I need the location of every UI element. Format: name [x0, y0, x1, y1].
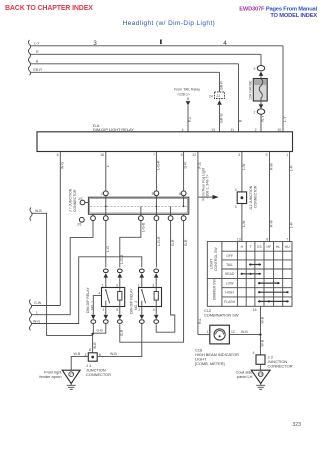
svg-text:5: 5: [116, 308, 118, 312]
wire J7-K down to relay1 pin5 (lower jog): [120, 221, 184, 343]
connector arrow below 2J: [217, 100, 222, 104]
svg-text:R-L: R-L: [198, 318, 202, 324]
svg-text:W-B: W-B: [110, 352, 117, 356]
contact bar FLASH row: [258, 300, 289, 302]
svg-text:2: 2: [138, 308, 140, 312]
section divider tick: [160, 40, 162, 45]
svg-text:3: 3: [235, 188, 237, 192]
svg-text:HL: HL: [276, 245, 280, 249]
svg-text:DIM-DIP RELAY: DIM-DIP RELAY: [86, 287, 90, 313]
svg-text:DIM-DIP LIGHT RELAY: DIM-DIP LIGHT RELAY: [93, 127, 134, 132]
svg-text:EWD307F Pages From Manual: EWD307F Pages From Manual: [239, 6, 317, 12]
svg-text:16: 16: [100, 153, 104, 157]
wire down to J1: [92, 334, 94, 353]
wire bus GR-R: [30, 71, 220, 73]
svg-text:4: 4: [153, 308, 155, 312]
svg-text:8: 8: [266, 237, 268, 241]
svg-text:W-B: W-B: [241, 330, 248, 334]
contact bar LOW row: [258, 282, 280, 284]
svg-text:1: 1: [286, 153, 288, 157]
svg-text:L-R: L-R: [290, 222, 294, 228]
fuse 10A GAUGE: [260, 54, 262, 65]
svg-text:TAIL: TAIL: [226, 263, 233, 267]
svg-text:CONTROL SW: CONTROL SW: [214, 247, 218, 271]
svg-text:E3: E3: [257, 245, 261, 249]
ground triangle 18: [251, 370, 270, 383]
svg-text:P-L: P-L: [188, 117, 192, 123]
svg-text:2: 2: [254, 110, 256, 114]
wire relay pin12 down (rear fog / indicator feed): [197, 152, 199, 335]
svg-text:L-R: L-R: [290, 165, 294, 171]
fuse arrow up: [259, 72, 264, 76]
J7 top circle C: [181, 191, 186, 196]
combination switch C12 table: [207, 242, 292, 307]
relay D-6 DIM-DIP LIGHT RELAY (main box): [37, 132, 293, 152]
wire relay pin7 to J7 top B: [155, 152, 157, 191]
svg-text:FLASH: FLASH: [224, 300, 235, 304]
relay2 switch contact: [141, 289, 143, 291]
svg-text:W-B: W-B: [261, 339, 265, 346]
connector 2J (dashed box) on GR-R wire: [219, 72, 221, 92]
svg-text:R-W: R-W: [270, 162, 274, 170]
svg-text:8: 8: [89, 348, 91, 352]
svg-text:J 7 JUNCTION: J 7 JUNCTION: [69, 188, 73, 212]
wire J7-G2 down to relay1 pin1: [105, 221, 107, 268]
fuse arrow down: [260, 101, 262, 105]
svg-text:BACK TO CHAPTER INDEX: BACK TO CHAPTER INDEX: [5, 5, 93, 12]
table horizontals: [207, 251, 292, 297]
svg-text:3: 3: [238, 153, 240, 157]
svg-text:W-G: W-G: [60, 162, 64, 169]
svg-text:[COMB. METER]: [COMB. METER]: [195, 361, 225, 366]
branch arrow to rear fog light: [198, 196, 213, 198]
svg-text:panel LH: panel LH: [237, 374, 253, 379]
table verticals: [222, 242, 283, 307]
svg-text:GR-R: GR-R: [220, 81, 224, 90]
svg-text:W-B: W-B: [93, 342, 97, 349]
wire B vertical to relay pin 11: [238, 64, 240, 132]
svg-text:12: 12: [192, 153, 196, 157]
wire bus L-Y: [30, 45, 283, 47]
svg-text:1: 1: [207, 330, 209, 334]
svg-text:CONNECTOR: CONNECTOR: [254, 185, 258, 208]
svg-text:4: 4: [253, 351, 255, 355]
svg-text:1: 1: [138, 283, 140, 287]
svg-text:CONNECTOR: CONNECTOR: [73, 189, 77, 212]
svg-text:J/7: J/7: [78, 197, 83, 201]
svg-text:<308-1, 348-7>: <308-1, 348-7>: [206, 175, 210, 199]
svg-text:7: 7: [153, 153, 155, 157]
wire J7-I down to relay2 pin3: [155, 221, 157, 268]
svg-text:W-B: W-B: [35, 209, 42, 213]
relay1 box: [102, 288, 125, 307]
junction connector J7 (long box): [88, 197, 188, 214]
svg-text:LIGHT: LIGHT: [210, 258, 214, 269]
svg-text:<228-1>: <228-1>: [177, 92, 190, 96]
svg-text:COMBINATION SW: COMBINATION SW: [204, 312, 239, 317]
svg-text:L-G-R: L-G-R: [157, 160, 161, 170]
relay1 top connector 1 (ellipse+arrow): [103, 269, 108, 273]
svg-text:11: 11: [230, 128, 234, 132]
svg-text:HIGH: HIGH: [225, 291, 234, 295]
svg-text:8: 8: [57, 153, 59, 157]
svg-text:G-R: G-R: [184, 239, 188, 246]
junction connector J12: [237, 192, 246, 204]
ground symbol (body ground): [67, 384, 76, 390]
svg-text:Headlight (w/ Dim-Dip Light): Headlight (w/ Dim-Dip Light): [123, 20, 216, 27]
arrow from TAIL relay: [186, 101, 191, 105]
svg-text:12: 12: [231, 330, 235, 334]
relay1 switch contact: [105, 289, 107, 291]
wire relay pin9 to combination switch: [269, 152, 271, 242]
contact bar TAIL row: [249, 264, 261, 266]
svg-text:2: 2: [102, 308, 104, 312]
wire C16 pin12 to ground column: [229, 334, 260, 336]
wire J7-H jog to relay1 pin3: [120, 221, 141, 268]
svg-text:J/1: J/1: [77, 223, 82, 227]
page continuation squiggle (top-left): [28, 40, 30, 75]
svg-text:HEAD: HEAD: [225, 272, 235, 276]
svg-text:J12 JUNCTION: J12 JUNCTION: [249, 185, 253, 210]
svg-text:G-R: G-R: [171, 239, 175, 246]
svg-text:W-B: W-B: [74, 352, 81, 356]
svg-text:R-Y: R-Y: [261, 115, 265, 122]
svg-text:DIM-DIP RELAY: DIM-DIP RELAY: [129, 288, 133, 314]
svg-text:1: 1: [102, 283, 104, 287]
J7 bottom circle G2: [103, 216, 108, 221]
fuse body: [253, 79, 267, 102]
svg-text:L: L: [106, 165, 110, 167]
svg-text:L-G-B: L-G-B: [120, 254, 124, 264]
J7 top circle A: [103, 191, 108, 196]
ground triangle 17: [62, 370, 80, 383]
relay2 box: [139, 288, 162, 307]
svg-text:T: T: [249, 245, 251, 249]
svg-text:R-W: R-W: [270, 219, 274, 227]
svg-text:OFF: OFF: [226, 254, 233, 258]
relay2 top connector 1: [139, 269, 144, 273]
ground symbol (body ground): [256, 384, 265, 390]
svg-text:10: 10: [277, 128, 281, 132]
svg-text:3: 3: [235, 205, 237, 209]
svg-text:G: G: [101, 192, 104, 196]
relay1 top connector 3: [117, 269, 122, 273]
svg-text:6: 6: [181, 153, 183, 157]
page continuation squiggle (bottom-left buses): [29, 300, 31, 331]
svg-text:9: 9: [254, 67, 256, 71]
wire J1 left to ground triangle 17: [71, 357, 88, 371]
svg-text:G-B: G-B: [97, 329, 104, 333]
svg-text:3: 3: [116, 283, 118, 287]
svg-text:GR-W: GR-W: [219, 113, 223, 123]
svg-text:L: L: [36, 311, 38, 315]
svg-text:From TAIL Relay: From TAIL Relay: [174, 88, 200, 92]
svg-text:TO MODEL INDEX: TO MODEL INDEX: [270, 13, 317, 19]
wire relay pin1 to combination switch: [289, 152, 291, 242]
svg-text:L-W: L-W: [242, 220, 246, 227]
wire relay pin6 to J7 top C: [183, 152, 185, 191]
svg-text:10A GAUGE: 10A GAUGE: [249, 80, 253, 100]
svg-text:323: 323: [292, 422, 301, 428]
svg-text:L-G: L-G: [106, 246, 110, 252]
svg-text:13: 13: [237, 237, 241, 241]
svg-text:3: 3: [152, 283, 154, 287]
wire bus R: [30, 53, 261, 55]
svg-text:2J: 2J: [217, 94, 221, 98]
svg-text:L-G-B: L-G-B: [141, 222, 145, 232]
ground net junction below relay1: [93, 323, 106, 333]
svg-text:16: 16: [253, 308, 257, 312]
J7 bottom circle I: [154, 216, 159, 221]
svg-text:9: 9: [266, 153, 268, 157]
wire relay pin16 to J7 top A: [105, 152, 107, 191]
svg-text:L-G-R: L-G-R: [157, 236, 161, 246]
fuse bottom connector ellipse: [257, 109, 264, 114]
relay2 coil: [154, 292, 158, 301]
wire pin 8 W-G down to G-W bus: [59, 152, 61, 306]
svg-text:G-W: G-W: [34, 301, 42, 305]
svg-text:L-Y: L-Y: [283, 116, 287, 122]
contact bar HIGH row: [258, 291, 289, 293]
J7 bottom circle H: [139, 216, 144, 221]
svg-text:18: 18: [259, 373, 263, 377]
relay1 coil: [118, 292, 122, 301]
wire L-Y vertical to relay pin 10: [282, 46, 284, 132]
svg-text:fender apron: fender apron: [39, 374, 61, 379]
svg-text:W-B: W-B: [261, 316, 265, 323]
svg-text:NO. 1: NO. 1: [91, 301, 95, 310]
svg-text:DIMMER SW: DIMMER SW: [213, 279, 217, 301]
svg-text:2: 2: [255, 128, 257, 132]
svg-text:24: 24: [209, 95, 213, 99]
svg-text:13: 13: [211, 128, 215, 132]
svg-text:HU: HU: [285, 245, 290, 249]
J7 bottom circle K: [181, 216, 186, 221]
svg-text:G-R: G-R: [120, 329, 124, 336]
wire J7-J down to relay2 pin4 (lower jog): [156, 221, 175, 333]
wire J1 right up to relay2 pin2: [97, 323, 142, 356]
svg-text:L-Y: L-Y: [34, 42, 40, 46]
page continuation squiggle (left, W-B): [30, 208, 32, 221]
svg-text:4: 4: [98, 291, 100, 295]
svg-text:17: 17: [69, 373, 73, 377]
junction connector J1: [88, 353, 97, 361]
svg-text:CONNECTOR: CONNECTOR: [268, 363, 293, 368]
fuse top connector ellipse: [257, 66, 264, 71]
svg-text:GR-R: GR-R: [33, 68, 42, 72]
wire bus B: [30, 63, 239, 65]
svg-text:LOW: LOW: [226, 282, 235, 286]
svg-text:HF: HF: [267, 245, 272, 249]
J7 left circle D: [80, 200, 85, 205]
svg-text:G-R: G-R: [184, 162, 188, 169]
wire relay pin3 to combination switch (via J12): [241, 152, 243, 242]
svg-text:NO. 2: NO. 2: [134, 301, 138, 310]
svg-text:CONNECTOR: CONNECTOR: [86, 372, 111, 377]
svg-text:7: 7: [287, 237, 289, 241]
J7 left circle E2: [79, 217, 84, 222]
J7 top circle B: [154, 191, 159, 196]
J7 bottom circle J: [168, 216, 173, 221]
svg-text:W-G: W-G: [33, 319, 40, 323]
svg-text:P-G: P-G: [198, 162, 202, 169]
svg-text:4: 4: [182, 128, 184, 132]
relay2 top connector 3: [154, 269, 159, 273]
J7 bottom circle F: [91, 216, 96, 221]
svg-text:L-W: L-W: [242, 163, 246, 170]
contact bar HEAD row: [241, 273, 261, 275]
